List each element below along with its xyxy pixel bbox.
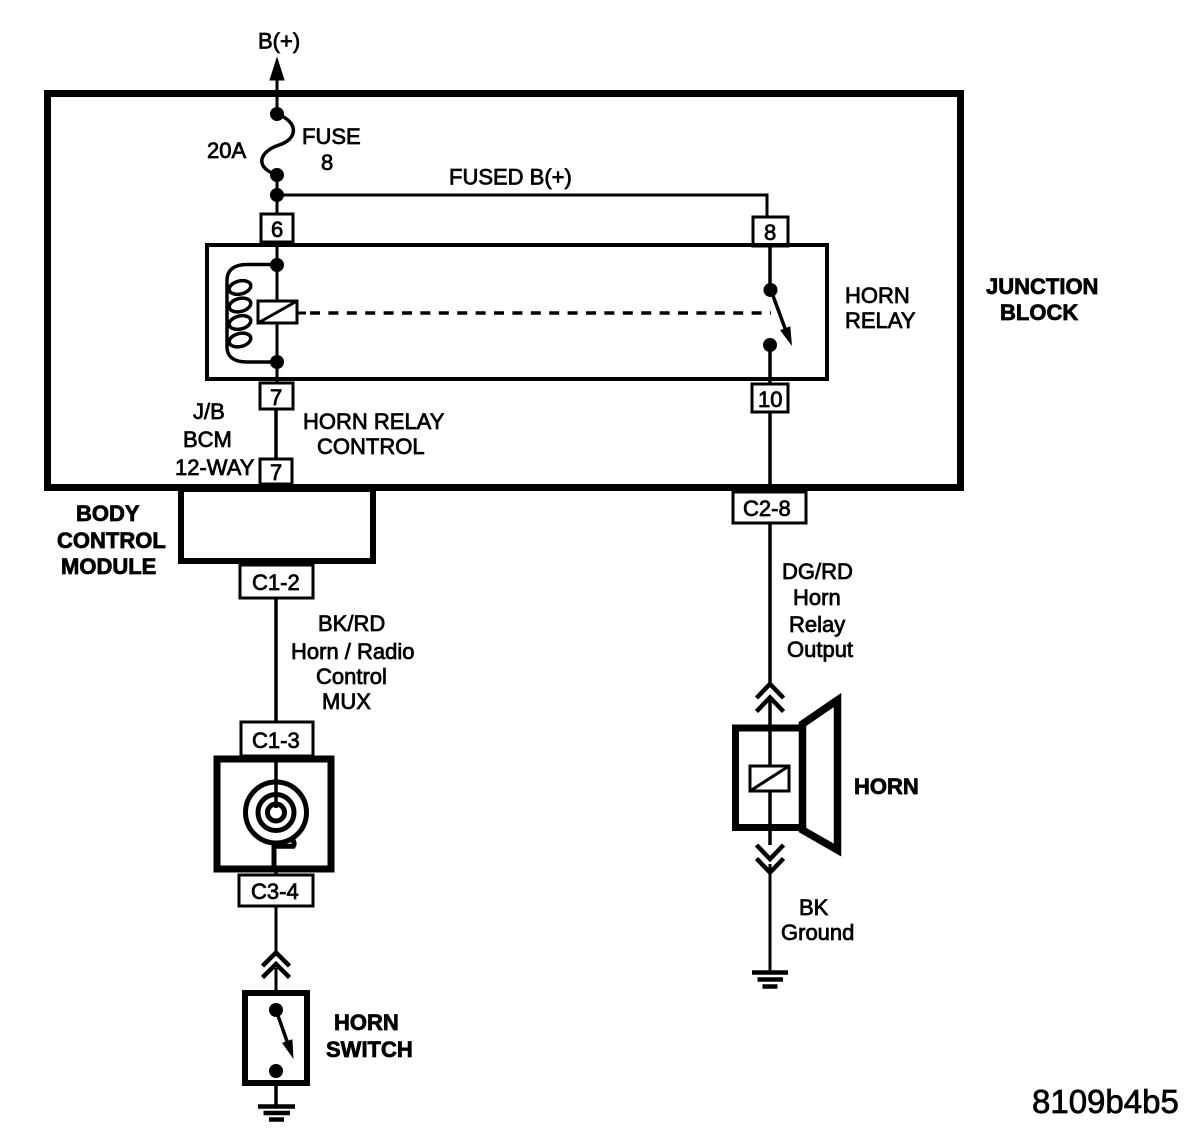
- svg-text:Output: Output: [787, 637, 853, 662]
- junction block outline: [48, 94, 961, 488]
- wire C3-4 to chevron: [275, 906, 278, 952]
- svg-text:JUNCTION: JUNCTION: [986, 274, 1098, 299]
- clockspring spiral tail: [274, 839, 294, 869]
- svg-text:CONTROL: CONTROL: [57, 528, 166, 553]
- relay switch blade arrowhead: [780, 326, 792, 346]
- svg-text:BODY: BODY: [76, 501, 140, 526]
- svg-text:FUSE: FUSE: [302, 124, 361, 149]
- connector C3-4 box: [239, 875, 313, 906]
- clockspring box: [217, 759, 331, 869]
- wire horn to ground: [769, 864, 772, 972]
- horn coil box: [750, 766, 789, 791]
- wire C2-8 to chevron: [768, 523, 772, 684]
- svg-text:C1-2: C1-2: [252, 570, 300, 595]
- pin 10 box: [752, 384, 788, 412]
- svg-text:7: 7: [270, 385, 282, 410]
- svg-text:C3-4: C3-4: [251, 879, 299, 904]
- pin 7 box lower: [260, 459, 292, 484]
- chevron pair right: [757, 684, 784, 712]
- relay coil core box: [258, 301, 297, 323]
- svg-text:Horn / Radio: Horn / Radio: [291, 639, 415, 664]
- wire from B(+) arrow into junction block: [276, 78, 279, 114]
- svg-text:20A: 20A: [207, 138, 246, 163]
- wire switch to pin 10: [768, 345, 772, 384]
- body control module box: [181, 489, 373, 561]
- svg-text:7: 7: [270, 460, 282, 485]
- svg-text:HORN: HORN: [845, 283, 910, 308]
- wire clockspring to C3-4: [274, 869, 278, 875]
- svg-text:B(+): B(+): [258, 29, 300, 54]
- svg-text:BLOCK: BLOCK: [1000, 300, 1078, 325]
- svg-text:MUX: MUX: [322, 689, 371, 714]
- node switch pivot dot: [764, 283, 778, 297]
- coil loop 3: [228, 314, 252, 332]
- wire chevron to horn: [768, 700, 772, 725]
- horn switch bottom contact dot: [269, 1064, 283, 1078]
- wire node to pin 6: [276, 195, 279, 215]
- svg-text:8109b4b5: 8109b4b5: [1032, 1083, 1179, 1120]
- svg-text:Relay: Relay: [789, 612, 845, 637]
- coil loop 2: [228, 296, 252, 314]
- chevron pair down: [757, 845, 784, 873]
- svg-text:HORN: HORN: [854, 774, 919, 799]
- ground right: [752, 973, 788, 987]
- connector C1-2 box: [240, 565, 313, 598]
- wire between 7 pins: [274, 409, 278, 459]
- node switch bottom dot: [763, 338, 777, 352]
- wire pin6 to relay coil: [276, 242, 279, 265]
- horn flare: [803, 700, 838, 850]
- wire chevron to horn switch: [275, 968, 278, 991]
- wire C1-2 to C1-3: [274, 598, 278, 722]
- arrow to B(+): [270, 58, 284, 80]
- horn body box: [736, 728, 803, 828]
- svg-text:BK/RD: BK/RD: [318, 611, 385, 636]
- pin 7 box upper: [260, 383, 293, 409]
- relay coil core diagonal: [258, 301, 297, 323]
- svg-text:HORN: HORN: [334, 1010, 399, 1035]
- svg-text:10: 10: [758, 387, 782, 412]
- svg-text:C1-3: C1-3: [252, 728, 300, 753]
- svg-text:FUSED B(+): FUSED B(+): [449, 165, 572, 190]
- horn coil diagonal: [750, 766, 789, 791]
- wire into clockspring: [274, 756, 278, 808]
- horn switch top contact dot: [269, 1003, 283, 1017]
- svg-text:BCM: BCM: [183, 427, 232, 452]
- svg-text:8: 8: [764, 220, 776, 245]
- svg-text:C2-8: C2-8: [743, 496, 791, 521]
- pin 8 box: [753, 217, 788, 246]
- svg-text:8: 8: [321, 150, 333, 175]
- fuse F8 20A squiggle: [262, 114, 294, 175]
- svg-text:Control: Control: [316, 664, 387, 689]
- horn switch blade: [276, 1010, 288, 1044]
- node coil top dot: [270, 258, 284, 272]
- svg-text:Ground: Ground: [781, 920, 854, 945]
- relay switch blade: [771, 289, 787, 331]
- pin 6 box: [261, 214, 293, 242]
- node junction dot below fuse: [270, 168, 284, 182]
- svg-text:Horn: Horn: [793, 585, 841, 610]
- node junction dot FUSED B(+) tap: [270, 188, 284, 202]
- horn switch blade arrowhead: [282, 1039, 294, 1059]
- svg-text:6: 6: [271, 217, 283, 242]
- horn relay outline: [207, 245, 827, 379]
- node junction dot above fuse: [270, 107, 284, 121]
- wire fuse to node: [276, 175, 279, 195]
- svg-text:SWITCH: SWITCH: [326, 1037, 413, 1062]
- horn switch box: [245, 993, 307, 1083]
- relay coil winding: [227, 265, 277, 363]
- wire FUSED B(+) to pin 8: [277, 195, 767, 217]
- svg-text:12-WAY: 12-WAY: [175, 455, 255, 480]
- wire pin10 to C2-8: [768, 412, 772, 493]
- dashed actuation line: [310, 311, 771, 315]
- wire through horn: [768, 725, 772, 845]
- coil loop 4: [228, 331, 252, 349]
- connector C1-3 box: [241, 722, 313, 756]
- coil loop 1: [228, 279, 252, 297]
- connector C2-8 box: [733, 492, 806, 523]
- wire horn switch to ground: [274, 1083, 278, 1106]
- svg-text:MODULE: MODULE: [61, 554, 156, 579]
- svg-text:RELAY: RELAY: [845, 308, 916, 333]
- wire coil core vertical: [276, 265, 279, 362]
- wire core box stub: [297, 312, 306, 315]
- svg-text:J/B: J/B: [193, 399, 225, 424]
- svg-text:CONTROL: CONTROL: [317, 434, 425, 459]
- wire pin8 to switch pivot: [768, 246, 772, 288]
- clockspring spiral: [268, 804, 285, 821]
- svg-text:BK: BK: [799, 895, 829, 920]
- node coil bottom dot: [270, 355, 284, 369]
- svg-text:HORN RELAY: HORN RELAY: [303, 409, 445, 434]
- chevron pair left: [263, 953, 290, 978]
- svg-text:DG/RD: DG/RD: [782, 559, 853, 584]
- ground left: [258, 1107, 295, 1120]
- wire coil to pin 7: [276, 362, 279, 383]
